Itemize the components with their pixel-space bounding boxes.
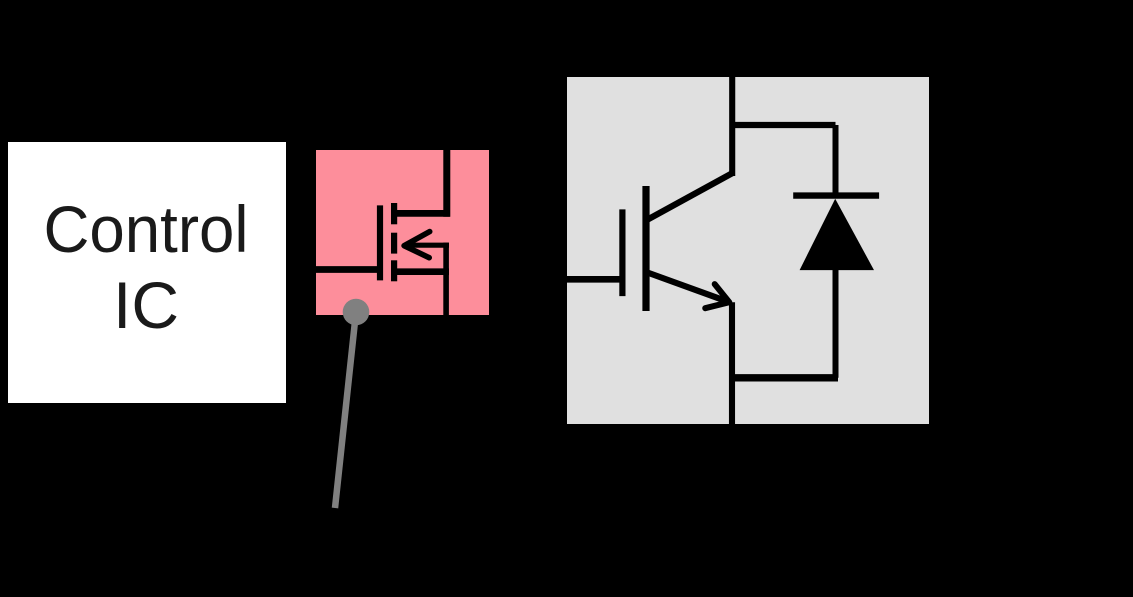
IGBT Q2 emitter diagonal bbox=[646, 272, 729, 302]
wire diode anode lead bbox=[833, 266, 839, 378]
IGBT Q2 gate bar bbox=[619, 209, 625, 296]
wire gate lead of MOSFET Q1 bbox=[316, 266, 381, 273]
MOSFET Q1 channel dash top bbox=[391, 203, 397, 224]
leader dot bbox=[343, 299, 370, 326]
leader line annotation bbox=[335, 312, 356, 508]
wire drain stub bbox=[394, 210, 450, 217]
IGBT module block (gray) bbox=[567, 77, 929, 424]
wire diode return to emitter bbox=[732, 374, 838, 381]
wire collector to diode D1 bbox=[732, 122, 835, 128]
svg-text:IC: IC bbox=[113, 268, 179, 342]
diode D1 cathode bar bbox=[793, 192, 879, 198]
wire drain to top edge bbox=[443, 150, 450, 217]
wire gate lead of IGBT Q2 bbox=[567, 276, 622, 283]
diode D1 triangle bbox=[800, 199, 874, 270]
wire diode cathode lead bbox=[833, 125, 839, 196]
MOSFET Q1 gate bar bbox=[377, 205, 383, 280]
wire emitter to bottom edge bbox=[729, 302, 735, 424]
wire collector from top edge bbox=[729, 77, 735, 176]
control IC block U1 bbox=[8, 142, 286, 403]
IGBT Q2 body bar bbox=[642, 186, 649, 311]
wire body shaft bbox=[407, 243, 449, 248]
wire source/body to bottom edge bbox=[443, 243, 449, 315]
IGBT Q2 emitter arrow head bbox=[705, 284, 729, 308]
MOSFET block (pink) bbox=[316, 150, 489, 315]
svg-text:Control: Control bbox=[44, 192, 249, 266]
IGBT Q2 collector diagonal bbox=[645, 173, 734, 222]
MOSFET Q1 channel dash bottom bbox=[391, 260, 397, 281]
MOSFET Q1 channel dash middle bbox=[391, 233, 397, 254]
label Control IC bbox=[44, 192, 249, 342]
MOSFET Q1 body arrow head bbox=[404, 232, 430, 258]
wire source stub bbox=[394, 268, 449, 275]
